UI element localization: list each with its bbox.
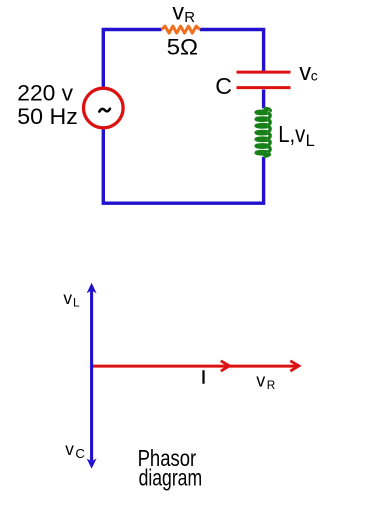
svg-text:diagram: diagram (139, 465, 203, 491)
label C (215, 73, 232, 99)
label 50 Hz (17, 104, 77, 129)
label I current (201, 368, 206, 388)
caption Phasor (138, 445, 197, 471)
svg-text:v: v (172, 0, 184, 24)
label vC phasor (65, 439, 85, 461)
svg-text:I: I (201, 368, 206, 388)
wire between capacitor and inductor (262, 90, 265, 109)
label 220 v (17, 81, 73, 106)
phasor vertical axis shaft (90, 290, 93, 461)
wire top-left and left-upper segment (103, 30, 161, 89)
label vR above resistor (172, 0, 195, 26)
svg-text:v: v (63, 288, 72, 308)
svg-text:v: v (65, 439, 74, 459)
phasor end arrowhead (vR) (290, 361, 299, 371)
svg-text:C: C (75, 446, 84, 461)
capacitor C top plate (237, 71, 291, 74)
capacitor C bottom plate (237, 86, 291, 89)
svg-text:5Ω: 5Ω (167, 35, 199, 60)
caption diagram (139, 465, 203, 491)
svg-text:L: L (73, 295, 80, 309)
svg-text:L,v: L,v (278, 121, 306, 147)
label vR phasor (256, 371, 275, 393)
phasor mid arrowhead (I) (221, 361, 230, 371)
wire top-right and right-upper segment (200, 30, 264, 72)
inductor L coil (256, 108, 270, 156)
wire left-lower, bottom, right-lower segment (103, 128, 263, 204)
svg-text:50 Hz: 50 Hz (17, 104, 77, 129)
phasor up arrowhead (vL) (87, 283, 97, 294)
phasor down arrowhead (vC) (87, 458, 97, 468)
svg-text:C: C (215, 73, 232, 99)
svg-text:R: R (184, 9, 195, 26)
label vL phasor (63, 288, 80, 309)
svg-text:L: L (306, 132, 315, 150)
svg-text:c: c (311, 68, 318, 84)
AC source tilde symbol (99, 109, 110, 112)
svg-text:v: v (256, 371, 265, 391)
label 5 ohm below resistor (167, 35, 199, 60)
label vc (299, 60, 318, 86)
svg-text:220 v: 220 v (17, 81, 73, 106)
label L,vL (278, 121, 314, 150)
phasor horizontal shaft (I, vR) (92, 365, 299, 368)
svg-text:v: v (299, 60, 311, 86)
svg-text:R: R (267, 378, 276, 392)
resistor R 5ohm zigzag (162, 26, 200, 33)
AC source V1 circle (84, 88, 124, 128)
